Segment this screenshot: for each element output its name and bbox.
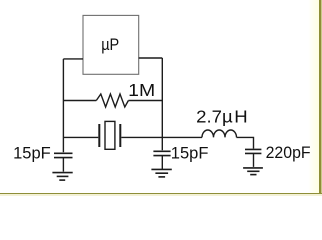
wire left pin of uP to left rail xyxy=(63,58,83,60)
svg-text:220pF: 220pF xyxy=(266,144,311,162)
bottom page border line xyxy=(0,193,322,195)
wire C1 to ground xyxy=(62,158,64,172)
ground under C3 xyxy=(243,168,263,175)
wire C2 to ground xyxy=(161,156,163,169)
wire right vertical rail xyxy=(161,58,163,150)
crystal Y1 left electrode xyxy=(98,124,100,147)
wire resistor row left xyxy=(63,100,96,102)
wire right rail to inductor xyxy=(162,136,202,138)
capacitor C3 220pF plates xyxy=(245,149,261,153)
wire C3 to ground xyxy=(253,153,255,167)
capacitor C1 15pF left plates xyxy=(54,153,73,157)
svg-text:15pF: 15pF xyxy=(13,145,51,163)
wire crystal row right xyxy=(121,136,162,138)
ground under C1 xyxy=(52,173,72,181)
crystal Y1 body xyxy=(105,121,115,149)
wire inductor to C3 corner xyxy=(237,137,254,148)
wire left vertical rail xyxy=(62,59,64,152)
microprocessor U1 box (µP) xyxy=(83,15,139,74)
wire resistor row right xyxy=(128,100,162,102)
wire crystal row left xyxy=(63,136,98,138)
ground under C2 xyxy=(151,169,171,177)
svg-text:1M: 1M xyxy=(128,80,155,100)
svg-text:2.7µ H: 2.7µ H xyxy=(196,106,248,126)
right page border line xyxy=(308,0,322,196)
capacitor C2 15pF right plates xyxy=(153,151,170,155)
inductor L1 2.7uH humps xyxy=(202,130,237,137)
wire right pin of uP to right rail xyxy=(139,57,163,59)
svg-text:µP: µP xyxy=(101,36,119,54)
svg-text:15pF: 15pF xyxy=(171,144,209,162)
crystal Y1 right electrode xyxy=(119,124,121,147)
resistor R1 1M zigzag xyxy=(96,94,128,107)
